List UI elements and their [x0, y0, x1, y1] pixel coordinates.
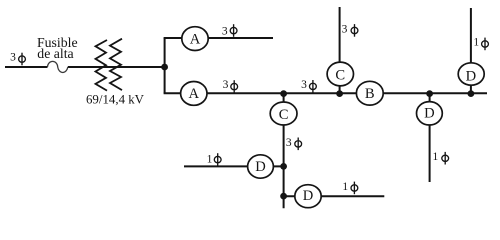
- svg-text:1: 1: [473, 37, 479, 49]
- svg-text:de alta: de alta: [37, 46, 73, 61]
- svg-text:3: 3: [286, 137, 292, 149]
- svg-text:A: A: [189, 86, 200, 102]
- svg-text:3: 3: [10, 52, 16, 64]
- svg-text:D: D: [303, 188, 314, 204]
- svg-text:3: 3: [223, 79, 229, 91]
- svg-text:3: 3: [301, 79, 307, 91]
- svg-text:B: B: [365, 86, 375, 102]
- svg-text:D: D: [466, 68, 477, 84]
- svg-text:1: 1: [342, 181, 348, 193]
- svg-text:3: 3: [342, 24, 348, 36]
- svg-text:D: D: [424, 106, 435, 122]
- svg-text:C: C: [335, 67, 345, 83]
- svg-text:D: D: [255, 159, 266, 175]
- svg-text:3: 3: [222, 25, 228, 37]
- svg-text:1: 1: [207, 154, 213, 166]
- svg-text:1: 1: [433, 151, 439, 163]
- svg-text:A: A: [190, 32, 201, 48]
- svg-text:C: C: [279, 107, 289, 123]
- svg-text:69/14,4 kV: 69/14,4 kV: [86, 93, 145, 107]
